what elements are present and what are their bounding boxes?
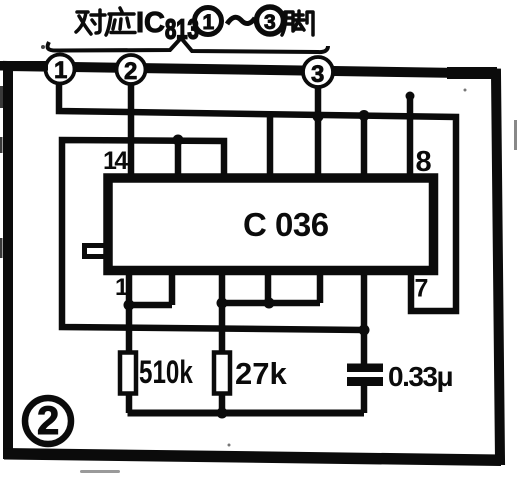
- svg-text:2: 2: [37, 399, 59, 443]
- svg-text:510k: 510k: [139, 355, 194, 391]
- svg-text:3: 3: [264, 11, 276, 34]
- svg-text:2: 2: [124, 58, 137, 85]
- svg-text:3: 3: [311, 61, 324, 88]
- svg-text:1: 1: [115, 274, 128, 301]
- svg-text:IC: IC: [136, 7, 165, 39]
- svg-text:C 036: C 036: [243, 206, 329, 243]
- svg-text:7: 7: [415, 275, 429, 303]
- svg-text:8: 8: [416, 146, 432, 178]
- svg-text:14: 14: [103, 147, 128, 175]
- svg-text:1: 1: [203, 11, 215, 34]
- svg-text:27k: 27k: [235, 356, 287, 391]
- svg-text:1: 1: [54, 57, 67, 84]
- svg-text:0.33μ: 0.33μ: [388, 361, 452, 392]
